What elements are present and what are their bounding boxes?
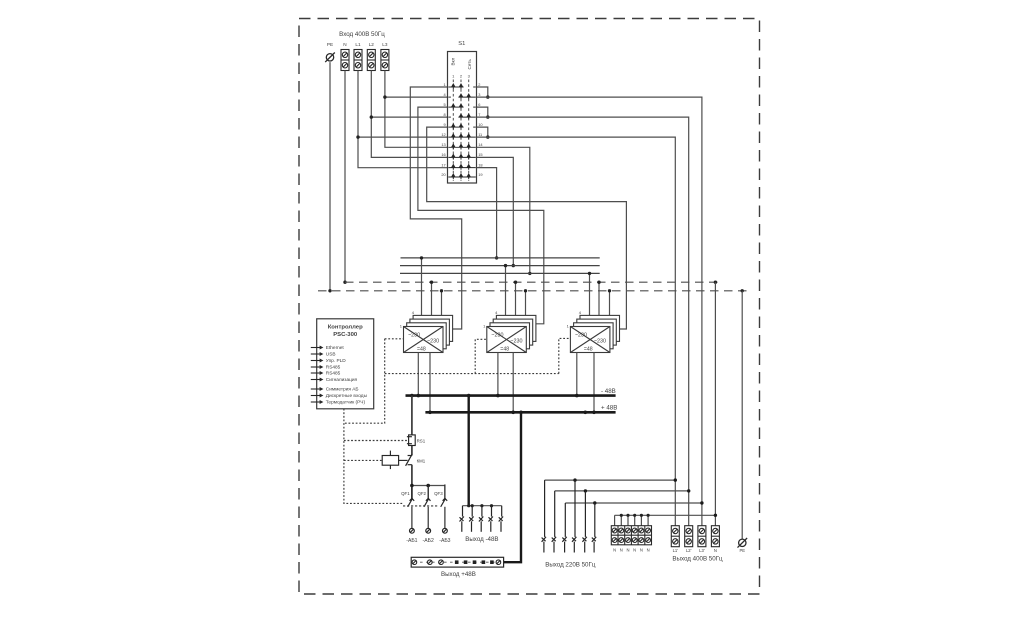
svg-text:4: 4 — [444, 92, 447, 97]
busbar +48V — [425, 411, 615, 414]
junction module A3 / -48V busbar — [575, 394, 579, 398]
fuse switch 220V output 4 — [572, 480, 576, 552]
junction on +48V busbar — [584, 411, 588, 415]
N block stub 1 — [614, 515, 616, 525]
PE input terminal — [325, 53, 335, 63]
svg-text:PSC-300: PSC-300 — [333, 332, 358, 338]
S1 column header numbers 1 2 3 — [452, 74, 470, 79]
module A1 output wire -48V — [417, 353, 419, 396]
controller signal RS485 — [311, 371, 341, 377]
wire S1 pin14 to phase bus 3 — [477, 147, 530, 273]
svg-text:8: 8 — [444, 112, 446, 117]
junction -48V group bus — [480, 504, 483, 507]
junction module3 N tap — [597, 281, 600, 284]
battery terminal -АБ3 — [443, 528, 448, 533]
svg-text:N: N — [626, 548, 629, 553]
junction module A2 / +48V busbar — [511, 411, 515, 415]
svg-text:19: 19 — [478, 172, 482, 177]
svg-text:N: N — [343, 42, 346, 47]
dashed control line controller bottom to QF trip link — [344, 409, 403, 504]
junction module A1 / -48V busbar — [417, 394, 421, 398]
N block stub 5 — [640, 515, 642, 525]
controller signal Ethernet — [311, 345, 345, 351]
contactor KM1 main contact — [406, 455, 412, 466]
svg-text:10: 10 — [478, 122, 483, 127]
svg-text:~230: ~230 — [408, 333, 420, 339]
controller signal Упр. PLD — [311, 358, 346, 364]
+48V strip blade terminal — [455, 560, 459, 564]
svg-text:S1: S1 — [458, 41, 465, 47]
rectifier module A3 stack — [570, 315, 619, 352]
svg-text:L2': L2' — [686, 548, 692, 553]
fuse switch 220V output 6 — [592, 503, 596, 553]
svg-text:2: 2 — [478, 82, 480, 87]
junction pin2/pin3 — [486, 95, 489, 98]
svg-text:Выход 220В 50Гц: Выход 220В 50Гц — [545, 562, 596, 569]
junction module A2 / -48V busbar — [496, 394, 500, 398]
svg-text:Дискретные входы: Дискретные входы — [326, 393, 368, 399]
N block stub 2 — [620, 515, 622, 525]
wire S1 pin7 to output terminal L2' — [477, 117, 689, 526]
module1 PE tap from PE bus — [441, 291, 443, 316]
junction N block stub 5 — [640, 514, 643, 517]
junction module2 tap / bus2 — [504, 264, 507, 267]
module2 phase tap from bus2 — [505, 266, 507, 316]
fuse switch 220V output 2 — [552, 491, 556, 553]
wire S1 pin6 jumper to pin7 — [477, 107, 488, 117]
controller signal Сигнализация — [311, 377, 358, 383]
PE output terminal — [738, 538, 748, 548]
circuit breaker QF1 — [408, 486, 415, 529]
svg-text:20: 20 — [441, 172, 446, 177]
wire S1 pin5 route to rectifier module 2 right side — [418, 107, 544, 324]
module1 N tap from N bus — [431, 282, 433, 315]
circuit breaker QF3 — [441, 484, 448, 528]
junction module1 PE tap — [440, 289, 443, 292]
junction module A3 / +48V busbar — [592, 411, 596, 415]
junction module A1 / +48V busbar — [428, 411, 432, 415]
svg-text:1: 1 — [400, 323, 403, 328]
svg-text:L3': L3' — [699, 548, 705, 553]
junction L1 / pin12 — [356, 135, 359, 138]
PE dashed bus — [318, 290, 749, 292]
controller signal Термодатчик (РЧ) — [311, 400, 366, 406]
controller signal RS485 — [311, 365, 341, 371]
junction N block stub 4 — [633, 514, 636, 517]
junction pin18 / bus1 — [495, 256, 498, 259]
+48V strip blade terminal — [490, 560, 494, 564]
svg-text:КМ1: КМ1 — [417, 458, 426, 463]
wire N' output down — [714, 282, 716, 526]
dashed control line controller to module A1 — [385, 338, 404, 340]
svg-text:Вкл: Вкл — [451, 57, 456, 65]
junction QF2 feed — [426, 484, 430, 488]
junction 220V switch 5 — [584, 489, 587, 492]
wire S1 pin15 to phase bus 2 — [477, 157, 514, 265]
module A3 output wire +48V — [593, 353, 595, 413]
svg-text:RS1: RS1 — [417, 439, 426, 444]
junction N block stub 2 — [620, 514, 623, 517]
terminal block L1 — [354, 50, 362, 71]
svg-text:3: 3 — [478, 92, 480, 97]
+48V strip screw terminal — [412, 560, 417, 565]
dashed control riser to module A3 — [559, 338, 571, 373]
junction QF1 feed — [410, 484, 414, 488]
svg-text:QF3: QF3 — [434, 491, 443, 496]
svg-text:-АБ3: -АБ3 — [439, 538, 450, 544]
junction N bus to N' output — [714, 281, 717, 284]
S1 contact row pins 4-3 — [448, 94, 476, 99]
S1 contact row pins 9-10 — [448, 124, 476, 129]
dashed control drop from module bus — [344, 339, 385, 423]
svg-text:N: N — [647, 548, 650, 553]
terminal block N — [341, 50, 349, 71]
wire 220V feed line 2 — [555, 490, 689, 492]
junction -48V group bus — [471, 504, 474, 507]
wire QF2 drop — [427, 486, 429, 499]
S1 contact row pins 13-14 — [448, 144, 476, 149]
module1 phase tap from bus1 — [421, 258, 423, 316]
controller signal USB — [311, 352, 336, 358]
svg-text:=48: =48 — [417, 347, 426, 353]
svg-text:N: N — [714, 548, 717, 553]
dashed control tap to shunt RS1 — [344, 440, 407, 442]
svg-text:N: N — [640, 548, 643, 553]
N terminal block 6x2 — [611, 526, 651, 545]
S1 contact row pins 5-6 — [448, 104, 476, 109]
svg-text:13: 13 — [441, 142, 445, 147]
contactor KM1 coil — [382, 451, 407, 470]
wire S1 pin10 jumper to pin11 — [477, 127, 488, 137]
wire S1 pin11 to output terminal L1' — [477, 137, 676, 526]
svg-text:1: 1 — [444, 82, 446, 87]
svg-text:QF2: QF2 — [417, 491, 426, 496]
dashed control riser to module A2 — [475, 339, 487, 373]
wire battery feeder upper — [411, 396, 413, 456]
feeder to -48V output group — [468, 396, 470, 506]
svg-text:15: 15 — [478, 152, 482, 157]
+48V strip screw terminal — [496, 560, 501, 565]
+48V strip screw terminal — [439, 560, 444, 565]
module3 N tap from N bus — [598, 282, 600, 315]
phase bus 2 — [400, 265, 600, 267]
+48V strip blade terminal — [482, 560, 486, 564]
svg-text:Выход -48В: Выход -48В — [465, 536, 498, 543]
svg-text:6: 6 — [478, 102, 480, 107]
wire S1 pin1 route to rectifier module 1 right side — [410, 87, 461, 329]
N block stub 4 — [634, 515, 636, 525]
module A1 output wire +48V — [429, 353, 431, 413]
junction module1 N tap — [430, 281, 433, 284]
wire QF feed rail — [412, 486, 445, 499]
svg-text:4: 4 — [495, 310, 498, 315]
+48V output strip box — [411, 557, 503, 567]
junction L2 / pin8 — [370, 115, 373, 118]
svg-text:~230: ~230 — [594, 338, 606, 344]
junction pin15 / bus2 — [512, 264, 515, 267]
S1 contact row pins 8-7 — [448, 114, 476, 119]
svg-text:L3: L3 — [382, 42, 388, 47]
svg-text:Контроллер: Контроллер — [328, 324, 363, 330]
neutral dashed bus N — [345, 281, 723, 283]
svg-text:-АБ2: -АБ2 — [423, 538, 434, 544]
junction pin14 / bus3 — [528, 272, 531, 275]
controller PSC-300 box — [317, 319, 374, 409]
module3 phase tap from bus3 — [589, 273, 591, 315]
fuse switch -48V output 4 — [489, 506, 493, 532]
svg-text:1: 1 — [452, 74, 455, 79]
fuse switch 220V output 3 — [562, 503, 566, 553]
svg-text:1: 1 — [567, 323, 570, 328]
wire 220V feed line 1 — [545, 479, 676, 481]
S1 contact row pins 17-18 — [448, 165, 476, 170]
junction N block stub 3 — [626, 514, 629, 517]
svg-text:RS485: RS485 — [326, 365, 341, 371]
junction N bus / N output wire — [714, 514, 717, 517]
fuse switch -48V output 3 — [479, 506, 483, 532]
junction module2 N tap — [514, 281, 517, 284]
junction PE wire / PE bus — [328, 289, 331, 292]
S1 contact row pins 1-2 — [448, 84, 476, 89]
feeder to +48V output strip — [504, 412, 521, 562]
wire PE input down to PE dashed bus — [329, 62, 331, 291]
svg-text:N: N — [633, 548, 636, 553]
svg-text:~230: ~230 — [575, 333, 587, 339]
svg-text:N: N — [620, 548, 623, 553]
svg-text:L1: L1 — [355, 42, 361, 47]
junction pin10/pin11 — [486, 135, 489, 138]
junction module2 PE tap — [524, 289, 527, 292]
junction feed line 3 to output phase wire — [700, 501, 703, 504]
svg-text:5: 5 — [444, 102, 446, 107]
svg-text:N: N — [613, 548, 616, 553]
junction battery feeder / -48V busbar — [410, 394, 414, 398]
phase bus 1 — [401, 257, 600, 259]
wire S1 pin3 to output terminal L3' — [477, 97, 702, 526]
svg-text:4: 4 — [412, 310, 415, 315]
wire battery feeder lower — [411, 465, 413, 499]
battery terminal -АБ2 — [426, 528, 431, 533]
junction -48V output feeder — [467, 394, 471, 398]
svg-text:17: 17 — [441, 162, 445, 167]
circuit breaker QF2 — [424, 484, 431, 528]
wire S1 pin2 jumper to pin3 — [477, 87, 488, 97]
svg-text:18: 18 — [478, 162, 482, 167]
junction N wire / N bus — [343, 281, 346, 284]
N block stub 6 — [647, 515, 649, 525]
terminal block L3 — [381, 50, 389, 71]
N distribution bus — [615, 514, 716, 516]
svg-text:9: 9 — [444, 122, 446, 127]
rectifier module A2 stack — [487, 315, 536, 352]
svg-text:Симметрия АБ: Симметрия АБ — [326, 387, 359, 393]
controller signal Дискретные входы — [311, 393, 368, 399]
+48V strip blade terminal — [464, 560, 468, 564]
shunt RS1 — [407, 435, 415, 446]
svg-text:Вход 400В 50Гц: Вход 400В 50Гц — [339, 31, 385, 38]
fuse switch -48V output 2 — [469, 506, 473, 532]
wire S1 pin18 to phase bus 1 — [477, 168, 497, 258]
svg-text:Выход 400В 50Гц: Выход 400В 50Гц — [672, 556, 723, 563]
S1 contact row pins 20-19 — [448, 174, 476, 179]
svg-text:QF1: QF1 — [401, 491, 410, 496]
junction -48V group bus — [490, 504, 493, 507]
wire L1 input to S1 pin12 and pin17 — [358, 71, 448, 168]
junction module1 tap / bus1 — [420, 256, 423, 259]
junction 220V switch 4 — [573, 478, 576, 481]
output terminal block N — [711, 526, 719, 547]
fuse switch -48V output 5 — [499, 506, 503, 532]
junction module3 PE tap — [608, 289, 611, 292]
svg-text:1: 1 — [483, 323, 486, 328]
svg-text:Ethernet: Ethernet — [326, 345, 345, 351]
svg-text:~230: ~230 — [491, 333, 503, 339]
dashed control tap to contactor KM1 coil — [344, 459, 382, 461]
output terminal block L2' — [685, 526, 693, 547]
module A3 output wire -48V — [576, 353, 578, 396]
junction +48V output feeder — [519, 411, 523, 415]
svg-text:3: 3 — [468, 74, 471, 79]
busbar -48V — [406, 394, 616, 397]
module3 PE tap from PE bus — [609, 291, 611, 316]
enclosure dashed border — [299, 19, 760, 595]
module A2 output wire +48V — [512, 353, 514, 413]
junction feed line 2 to output phase wire — [687, 489, 690, 492]
junction feed line 1 to output phase wire — [674, 478, 677, 481]
battery terminal -АБ1 — [410, 528, 415, 533]
rectifier module A1 stack — [404, 315, 453, 352]
svg-text:Термодатчик (РЧ): Термодатчик (РЧ) — [326, 400, 366, 406]
svg-text:14: 14 — [478, 142, 483, 147]
svg-text:L2: L2 — [369, 42, 375, 47]
S1 contact row pins 16-15 — [448, 154, 476, 159]
S1 contact row pins 12-11 — [448, 134, 476, 139]
dashed QF trip linkage — [403, 505, 438, 507]
svg-text:Сеть: Сеть — [467, 59, 472, 70]
svg-text:12: 12 — [441, 132, 445, 137]
wire 220V feed line 3 — [565, 502, 702, 504]
controller signal Симметрия АБ — [311, 387, 359, 393]
svg-text:+ 48В: + 48В — [601, 405, 617, 412]
module A2 output wire -48V — [497, 353, 499, 396]
junction -48V group bus — [467, 504, 470, 507]
wire L2 input to S1 pin8 and pin16 — [371, 71, 447, 158]
+48V strip screw terminal — [428, 560, 433, 565]
svg-text:2: 2 — [460, 74, 463, 79]
svg-text:4: 4 — [579, 310, 582, 315]
fuse switch -48V output 1 — [460, 506, 464, 532]
N block stub 3 — [627, 515, 629, 525]
+48V strip link dashes — [414, 561, 499, 563]
output terminal block L1' — [671, 526, 679, 547]
svg-text:16: 16 — [441, 152, 445, 157]
svg-text:7: 7 — [478, 112, 480, 117]
svg-text:11: 11 — [478, 132, 482, 137]
junction N block stub 6 — [647, 514, 650, 517]
svg-text:- 48В: - 48В — [601, 388, 616, 395]
svg-text:Упр. PLD: Упр. PLD — [326, 358, 346, 364]
svg-text:=48: =48 — [500, 347, 509, 353]
output terminal block L3' — [698, 526, 706, 547]
switch S1 body — [448, 52, 477, 184]
wire L3 input to S1 pin4 and pin13 — [385, 71, 448, 148]
svg-text:L1': L1' — [673, 548, 679, 553]
wire PE output down — [741, 291, 743, 539]
svg-text:~230: ~230 — [427, 338, 439, 344]
S1 cam column dashed lines — [453, 80, 468, 182]
svg-text:-АБ1: -АБ1 — [406, 538, 417, 544]
module2 PE tap from PE bus — [525, 291, 527, 316]
junction pin6/pin7 — [486, 115, 489, 118]
svg-text:Сигнализация: Сигнализация — [326, 377, 358, 383]
dashed control bus below modules — [385, 373, 559, 375]
svg-text:RS485: RS485 — [326, 371, 341, 377]
junction PE bus to PE output — [741, 289, 744, 292]
svg-text:USB: USB — [326, 352, 336, 358]
svg-text:Выход +48В: Выход +48В — [441, 571, 476, 578]
phase bus 3 — [400, 272, 600, 274]
svg-text:PE: PE — [740, 548, 746, 553]
-48V output group bus — [463, 505, 502, 507]
junction L3 / pin4 — [383, 95, 386, 98]
fuse switch 220V output 5 — [582, 491, 586, 553]
module2 N tap from N bus — [515, 282, 517, 315]
svg-text:=48: =48 — [584, 347, 593, 353]
+48V strip blade terminal — [473, 560, 477, 564]
wire N input down to N dashed bus — [344, 71, 346, 283]
wire S1 pin9 route to rectifier module 3 right side — [427, 127, 627, 329]
junction module3 tap / bus3 — [588, 272, 591, 275]
terminal block L2 — [367, 50, 375, 71]
svg-text:PE: PE — [327, 42, 333, 47]
svg-text:~230: ~230 — [510, 338, 522, 344]
fuse switch 220V output 1 — [542, 480, 546, 552]
junction 220V switch 6 — [593, 501, 596, 504]
